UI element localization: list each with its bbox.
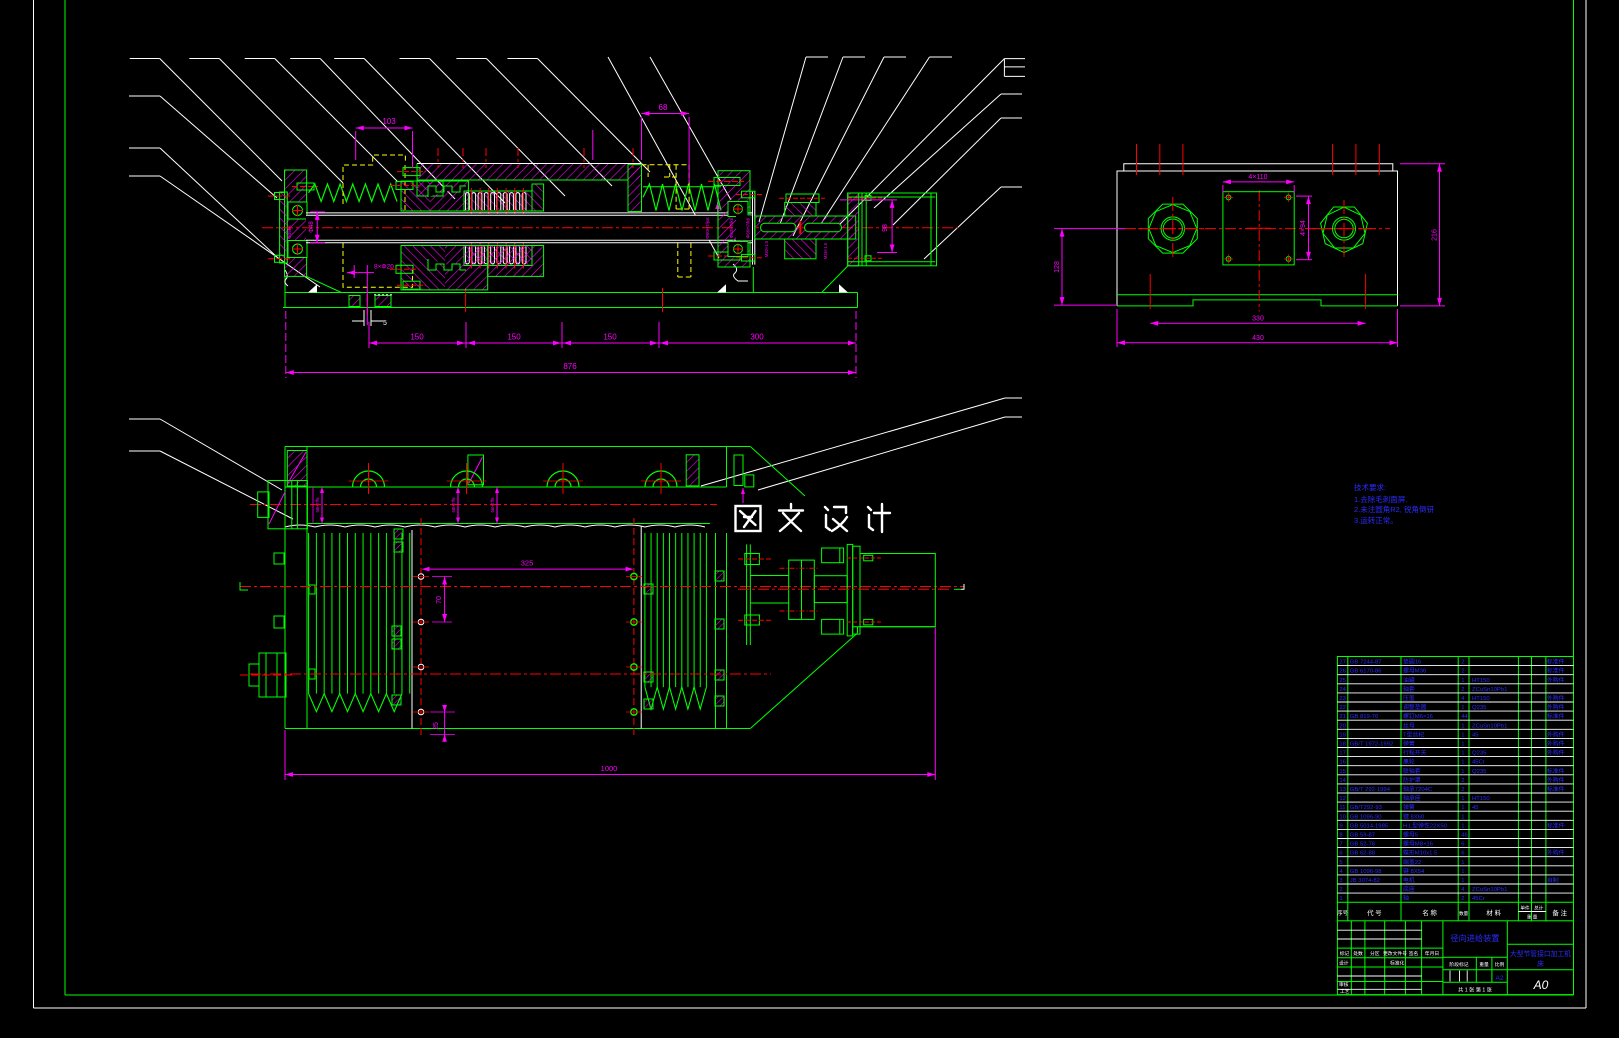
svg-text:4×94: 4×94 <box>1300 220 1307 236</box>
svg-text:垫圆16: 垫圆16 <box>1403 658 1422 666</box>
svg-text:螺母5: 螺母5 <box>1403 831 1419 839</box>
svg-text:标准件: 标准件 <box>1547 767 1565 775</box>
svg-text:标准件: 标准件 <box>1547 658 1565 666</box>
svg-text:19: 19 <box>1339 732 1346 738</box>
svg-text:Q235: Q235 <box>1472 751 1487 757</box>
svg-text:工艺: 工艺 <box>1340 989 1350 995</box>
svg-text:216: 216 <box>1432 229 1439 241</box>
svg-text:Φ60H7/k6: Φ60H7/k6 <box>746 217 751 238</box>
svg-text:2: 2 <box>1461 687 1464 693</box>
svg-text:名 称: 名 称 <box>1422 908 1437 917</box>
svg-text:ZCuSn10Pb1: ZCuSn10Pb1 <box>1472 687 1507 693</box>
svg-text:24: 24 <box>1339 687 1346 693</box>
svg-text:25: 25 <box>433 722 440 730</box>
svg-text:HT150: HT150 <box>1472 796 1490 802</box>
svg-text:GB 5014-1985: GB 5014-1985 <box>1350 823 1389 829</box>
svg-text:比例: 比例 <box>1495 961 1505 968</box>
svg-text:A0: A0 <box>1533 978 1549 992</box>
svg-text:1: 1 <box>1339 896 1342 902</box>
svg-text:更改文件号: 更改文件号 <box>1383 950 1407 957</box>
svg-text:轴承座: 轴承座 <box>1403 794 1421 802</box>
svg-text:压盖: 压盖 <box>1403 694 1415 702</box>
svg-text:68: 68 <box>659 103 668 112</box>
svg-text:重量: 重量 <box>1479 961 1489 968</box>
svg-text:12: 12 <box>1339 796 1346 802</box>
svg-text:45Cr: 45Cr <box>1472 896 1485 902</box>
svg-text:年月日: 年月日 <box>1425 950 1439 957</box>
svg-text:分区: 分区 <box>1370 950 1380 957</box>
svg-text:单件: 单件 <box>1520 905 1530 912</box>
svg-text:18: 18 <box>1339 742 1346 748</box>
svg-text:Φ48: Φ48 <box>309 221 315 233</box>
svg-text:键 8X54: 键 8X54 <box>1403 867 1425 875</box>
svg-text:45Cr: 45Cr <box>1472 760 1485 766</box>
svg-text:27: 27 <box>1339 660 1346 666</box>
svg-text:2: 2 <box>1461 787 1464 793</box>
svg-text:150: 150 <box>603 333 617 342</box>
svg-text:标记: 标记 <box>1340 950 1350 957</box>
svg-text:1: 1 <box>1461 823 1464 829</box>
svg-text:150: 150 <box>410 333 424 342</box>
svg-text:标准件: 标准件 <box>1547 712 1565 720</box>
svg-text:22: 22 <box>1339 705 1346 711</box>
svg-text:14: 14 <box>1339 778 1346 784</box>
svg-text:ZCuSn10Pb1: ZCuSn10Pb1 <box>1472 723 1507 729</box>
svg-text:2: 2 <box>1461 660 1464 666</box>
svg-text:1: 1 <box>1461 860 1464 866</box>
svg-text:H.L型弹性22X50: H.L型弹性22X50 <box>1403 821 1448 829</box>
svg-text:审核: 审核 <box>1339 981 1349 988</box>
svg-text:GB/T 1972-1992: GB/T 1972-1992 <box>1350 742 1393 748</box>
svg-text:JB 3074-82: JB 3074-82 <box>1350 878 1380 884</box>
svg-text:HT150: HT150 <box>1472 696 1490 702</box>
svg-text:GB 1096-90: GB 1096-90 <box>1350 814 1382 820</box>
svg-text:45: 45 <box>1472 805 1479 811</box>
svg-text:自制: 自制 <box>1547 876 1559 884</box>
svg-text:GB/T 292-1994: GB/T 292-1994 <box>1350 787 1391 793</box>
svg-text:1: 1 <box>1461 869 1464 875</box>
svg-text:26: 26 <box>1339 669 1346 675</box>
svg-text:处数: 处数 <box>1353 950 1363 957</box>
svg-text:T型丝杞: T型丝杞 <box>1403 730 1424 738</box>
svg-text:70: 70 <box>436 596 443 604</box>
svg-text:58H7/f6: 58H7/f6 <box>315 497 320 513</box>
svg-text:螺母M36: 螺母M36 <box>1403 667 1427 675</box>
svg-text:1: 1 <box>1461 760 1464 766</box>
svg-text:68H7/f6: 68H7/f6 <box>451 497 456 513</box>
svg-text:轴: 轴 <box>1403 894 1409 902</box>
svg-text:外购件: 外购件 <box>1547 730 1565 738</box>
svg-text:调整垫圆: 调整垫圆 <box>1403 703 1427 711</box>
svg-text:17: 17 <box>1339 751 1346 757</box>
svg-text:2: 2 <box>1461 896 1464 902</box>
svg-text:外购件: 外购件 <box>1547 849 1565 857</box>
svg-text:阶段标记: 阶段标记 <box>1449 961 1468 968</box>
svg-text:联轴套: 联轴套 <box>1403 767 1421 775</box>
svg-text:签名: 签名 <box>1409 950 1419 957</box>
svg-text:66H7/f6: 66H7/f6 <box>490 497 495 513</box>
svg-text:弹簧: 弹簧 <box>1403 740 1415 748</box>
svg-text:9: 9 <box>1339 823 1342 829</box>
svg-text:弹簧: 弹簧 <box>1403 803 1415 811</box>
svg-text:标准件: 标准件 <box>1547 785 1565 793</box>
svg-text:共 1 张 第 1 张: 共 1 张 第 1 张 <box>1458 986 1493 994</box>
svg-text:1: 1 <box>1461 723 1464 729</box>
svg-text:GB 52-76: GB 52-76 <box>1350 842 1376 848</box>
svg-text:GB 819-76: GB 819-76 <box>1350 714 1379 720</box>
svg-text:3.运转正常。: 3.运转正常。 <box>1354 515 1398 525</box>
svg-text:1: 1 <box>1461 769 1464 775</box>
svg-text:端盖22: 端盖22 <box>1403 858 1421 866</box>
svg-text:GB 59-87: GB 59-87 <box>1350 833 1375 839</box>
svg-text:GB 7244-87: GB 7244-87 <box>1350 660 1382 666</box>
svg-text:21: 21 <box>1339 714 1346 720</box>
svg-text:电机: 电机 <box>1403 876 1415 884</box>
svg-text:Q235: Q235 <box>1472 769 1487 775</box>
svg-text:外购件: 外购件 <box>1547 676 1565 684</box>
svg-text:丝母: 丝母 <box>1403 721 1415 729</box>
svg-text:1: 1 <box>1461 805 1464 811</box>
svg-text:2: 2 <box>1461 669 1464 675</box>
svg-text:ZCuSn10Pb1: ZCuSn10Pb1 <box>1472 887 1507 893</box>
svg-text:1: 1 <box>1461 678 1464 684</box>
svg-text:油罐: 油罐 <box>1403 676 1415 684</box>
svg-text:外购件: 外购件 <box>1547 694 1565 702</box>
svg-text:5: 5 <box>383 320 387 327</box>
svg-text:外购件: 外购件 <box>1547 749 1565 757</box>
svg-text:GB/T292-93: GB/T292-93 <box>1350 805 1383 811</box>
svg-text:1: 1 <box>1461 796 1464 802</box>
svg-text:7: 7 <box>1339 842 1342 848</box>
svg-text:技术要求:: 技术要求: <box>1354 482 1386 492</box>
svg-text:1: 1 <box>1461 705 1464 711</box>
svg-text:蝶形M10x1.5: 蝶形M10x1.5 <box>1403 849 1438 857</box>
svg-text:数量: 数量 <box>1459 910 1469 917</box>
svg-text:325: 325 <box>521 559 534 568</box>
svg-text:材 料: 材 料 <box>1486 908 1501 917</box>
svg-text:GB 62-88: GB 62-88 <box>1350 851 1376 857</box>
svg-text:外购件: 外购件 <box>1547 776 1565 784</box>
svg-text:总计: 总计 <box>1534 905 1544 912</box>
svg-text:轴套: 轴套 <box>1403 685 1415 693</box>
svg-text:A2: A2 <box>1496 975 1504 982</box>
svg-text:床: 床 <box>1537 959 1544 968</box>
svg-text:Φ62H7/k6: Φ62H7/k6 <box>729 217 734 238</box>
svg-text:16: 16 <box>1339 760 1346 766</box>
svg-text:103: 103 <box>382 117 396 126</box>
svg-text:1: 1 <box>1461 751 1464 757</box>
svg-text:46: 46 <box>1461 833 1468 839</box>
svg-text:螺母M8×16: 螺母M8×16 <box>1403 840 1434 848</box>
svg-text:15: 15 <box>1339 769 1346 775</box>
svg-text:1: 1 <box>1461 878 1464 884</box>
svg-text:外购件: 外购件 <box>1547 740 1565 748</box>
svg-text:8×Φ20: 8×Φ20 <box>374 264 394 271</box>
svg-text:M30×1.5: M30×1.5 <box>764 240 769 257</box>
svg-text:2: 2 <box>1339 887 1342 893</box>
svg-text:外购件: 外购件 <box>1547 703 1565 711</box>
svg-text:重 量: 重 量 <box>1527 914 1538 921</box>
svg-text:标准件: 标准件 <box>1547 667 1565 675</box>
svg-text:凲轮: 凲轮 <box>1403 758 1415 766</box>
svg-text:设计: 设计 <box>1339 960 1349 967</box>
svg-text:标准件: 标准件 <box>1547 821 1565 829</box>
svg-text:13: 13 <box>1339 787 1346 793</box>
svg-text:128: 128 <box>1054 261 1061 273</box>
svg-text:1: 1 <box>1461 814 1464 820</box>
svg-text:HT150: HT150 <box>1472 678 1490 684</box>
svg-text:备 注: 备 注 <box>1552 908 1567 917</box>
svg-text:径向进给装置: 径向进给装置 <box>1450 933 1499 943</box>
svg-text:Q235: Q235 <box>1472 705 1487 711</box>
svg-text:Φ35k6: Φ35k6 <box>287 225 292 239</box>
svg-text:1: 1 <box>1461 742 1464 748</box>
svg-text:1000: 1000 <box>601 764 618 773</box>
svg-text:300: 300 <box>750 333 764 342</box>
svg-text:44: 44 <box>1461 714 1468 720</box>
svg-text:4×110: 4×110 <box>1248 174 1267 181</box>
svg-text:1.去除毛刺面屏.: 1.去除毛刺面屏. <box>1354 494 1407 504</box>
svg-text:45: 45 <box>1472 732 1479 738</box>
svg-text:2.未注圆角R2, 锐角倒钘: 2.未注圆角R2, 锐角倒钘 <box>1354 504 1435 514</box>
svg-text:GB 1096-98: GB 1096-98 <box>1350 869 1382 875</box>
svg-text:M36×1.5: M36×1.5 <box>823 242 828 259</box>
svg-text:330: 330 <box>1252 316 1264 323</box>
svg-text:150: 150 <box>507 333 521 342</box>
svg-text:98: 98 <box>882 224 889 232</box>
svg-text:标准化: 标准化 <box>1390 960 1405 967</box>
svg-text:螺钉M6×16: 螺钉M6×16 <box>1403 712 1434 720</box>
svg-text:Φ60H7/js6: Φ60H7/js6 <box>705 217 710 239</box>
svg-text:25: 25 <box>1339 678 1346 684</box>
svg-text:键 8X60: 键 8X60 <box>1403 812 1425 820</box>
svg-text:行程开关: 行程开关 <box>1403 749 1427 757</box>
svg-text:防护罩: 防护罩 <box>1403 776 1421 784</box>
svg-text:11: 11 <box>1339 805 1345 811</box>
svg-text:2: 2 <box>1461 778 1464 784</box>
svg-text:23: 23 <box>1339 696 1346 702</box>
svg-text:20: 20 <box>1339 723 1346 729</box>
svg-text:1: 1 <box>1461 732 1464 738</box>
svg-text:底座: 底座 <box>1403 885 1415 893</box>
svg-text:序号: 序号 <box>1337 909 1348 917</box>
svg-text:GB 6170-86: GB 6170-86 <box>1350 669 1382 675</box>
svg-text:大型节管接口加工机: 大型节管接口加工机 <box>1510 949 1571 958</box>
svg-text:876: 876 <box>563 362 577 371</box>
svg-text:10: 10 <box>1339 814 1346 820</box>
svg-text:430: 430 <box>1252 335 1264 342</box>
svg-text:代 号: 代 号 <box>1367 908 1382 917</box>
svg-text:轴承7204C: 轴承7204C <box>1403 785 1433 793</box>
